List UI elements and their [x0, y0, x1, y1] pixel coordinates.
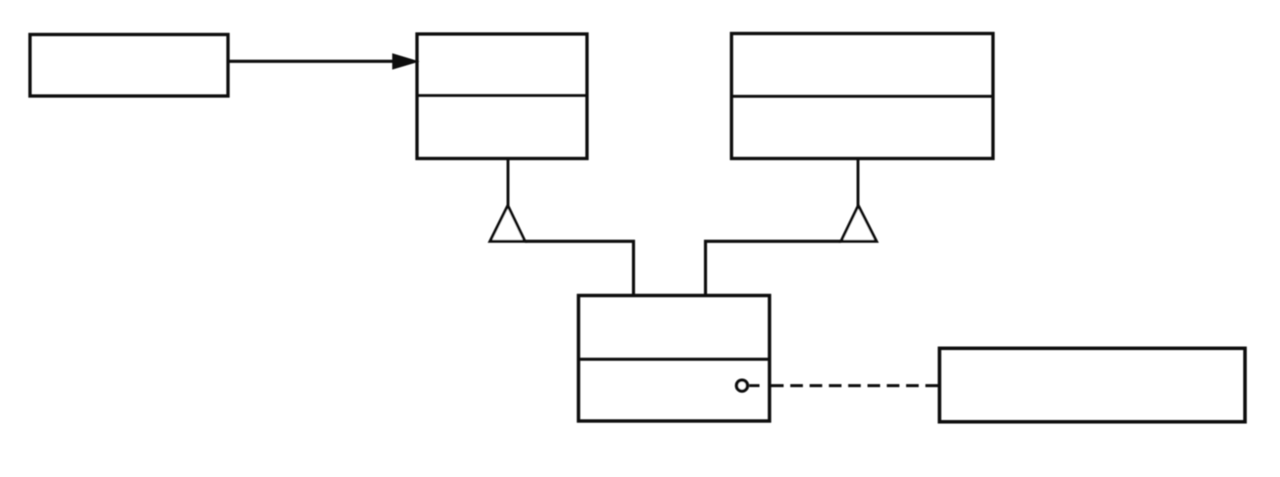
box D divider — [579, 358, 770, 361]
generalization elbow wire left — [525, 241, 634, 296]
class box E (bottom-right) — [940, 348, 1246, 422]
generalization stem from box C — [857, 159, 860, 208]
class box A (top-left) — [30, 35, 228, 97]
lollipop interface circle — [737, 380, 748, 391]
box B divider — [417, 94, 587, 97]
lollipop stub wire — [749, 384, 759, 387]
generalization triangle under box C — [841, 206, 877, 242]
association arrowhead — [393, 54, 417, 68]
class box C (top-right) — [732, 34, 994, 159]
class box D (central child) — [579, 296, 770, 422]
class box B (top-middle) — [417, 34, 587, 159]
box C divider — [732, 95, 994, 98]
dashed dependency wire — [771, 384, 939, 387]
generalization elbow wire right — [706, 241, 842, 296]
association arrow shaft A to B — [229, 60, 397, 63]
generalization triangle under box B — [490, 206, 525, 242]
generalization stem from box B — [507, 159, 510, 208]
